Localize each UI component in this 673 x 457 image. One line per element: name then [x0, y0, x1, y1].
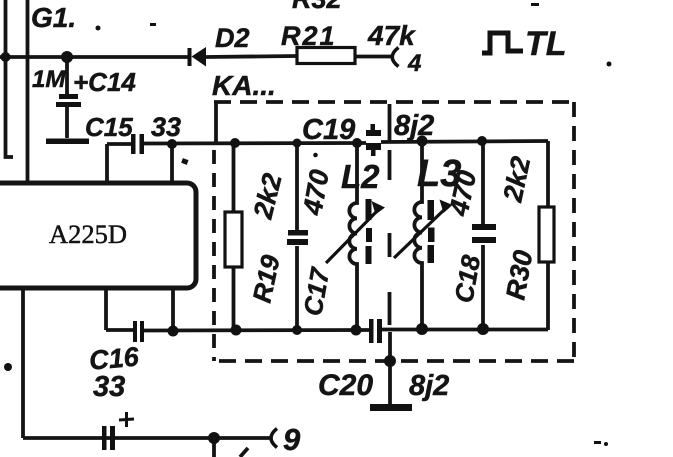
svg-text:D2: D2 [215, 23, 250, 53]
svg-text:KA...: KA... [212, 70, 276, 101]
svg-text:2k2: 2k2 [497, 154, 536, 205]
svg-text:8j2: 8j2 [394, 110, 434, 142]
svg-text:8j2: 8j2 [409, 370, 449, 402]
svg-text:C19: C19 [302, 114, 355, 146]
svg-text:470: 470 [297, 167, 335, 218]
svg-text:R30: R30 [500, 248, 538, 302]
svg-text:R19: R19 [247, 252, 286, 305]
svg-text:L2: L2 [341, 158, 380, 195]
svg-text:G1.: G1. [31, 2, 76, 33]
svg-text:2k2: 2k2 [247, 170, 287, 222]
svg-text:C18: C18 [448, 252, 486, 305]
svg-text:C17: C17 [297, 264, 335, 318]
svg-text:R32: R32 [292, 0, 342, 14]
svg-text:33: 33 [93, 371, 125, 403]
svg-text:4: 4 [407, 50, 421, 77]
svg-text:1M: 1M [32, 66, 66, 93]
svg-text:C15: C15 [85, 112, 133, 142]
svg-text:C20: C20 [318, 369, 373, 402]
svg-text:A225D: A225D [49, 219, 127, 249]
svg-text:47k: 47k [367, 20, 416, 51]
svg-text:33: 33 [151, 112, 181, 142]
svg-text:9: 9 [283, 422, 301, 457]
svg-text:R21: R21 [281, 21, 337, 51]
svg-text:TL: TL [525, 25, 567, 63]
svg-text:+C14: +C14 [73, 67, 136, 97]
